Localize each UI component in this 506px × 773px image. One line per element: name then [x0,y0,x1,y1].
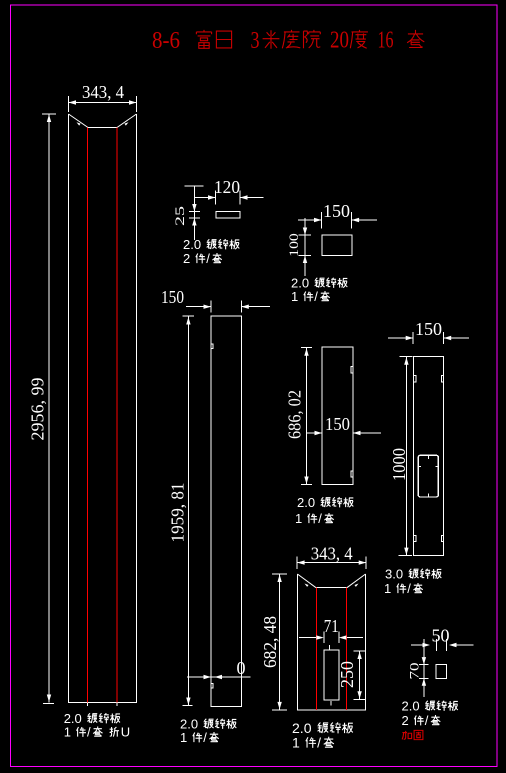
svg-text:682, 48: 682, 48 [260,616,280,668]
svg-text:150: 150 [415,319,442,339]
svg-text:250: 250 [337,661,357,688]
svg-text:150: 150 [161,287,184,307]
svg-text:2: 2 [402,713,409,728]
svg-text:1: 1 [292,735,300,751]
svg-text:343, 4: 343, 4 [82,82,124,102]
svg-text:1: 1 [295,511,302,526]
svg-text:343, 4: 343, 4 [311,544,353,564]
svg-text:16: 16 [378,28,394,54]
svg-text:2956, 99: 2956, 99 [28,378,48,441]
svg-text:0: 0 [237,658,246,678]
svg-text:70: 70 [407,663,422,680]
svg-text:3.0: 3.0 [385,567,403,582]
svg-text:150: 150 [325,414,350,434]
svg-text:2.0: 2.0 [297,495,315,510]
svg-text:3: 3 [251,28,260,54]
svg-text:1000: 1000 [389,448,409,481]
svg-text:U: U [121,725,130,740]
svg-text:8-6: 8-6 [152,28,180,54]
svg-text:1: 1 [291,289,298,304]
svg-text:2.0: 2.0 [402,699,420,714]
svg-text:1: 1 [180,730,187,745]
svg-text:20: 20 [330,28,349,54]
svg-text:71: 71 [324,616,339,636]
svg-text:1959, 81: 1959, 81 [168,483,188,543]
svg-text:2.0: 2.0 [183,237,201,252]
svg-text:686, 02: 686, 02 [285,390,305,439]
svg-text:2: 2 [183,251,190,266]
svg-text:50: 50 [432,626,450,646]
svg-text:150: 150 [323,201,350,221]
svg-text:25: 25 [172,206,187,226]
svg-text:1: 1 [64,725,71,740]
svg-text:120: 120 [214,177,240,197]
svg-text:100: 100 [286,233,301,257]
svg-text:1: 1 [384,581,391,596]
